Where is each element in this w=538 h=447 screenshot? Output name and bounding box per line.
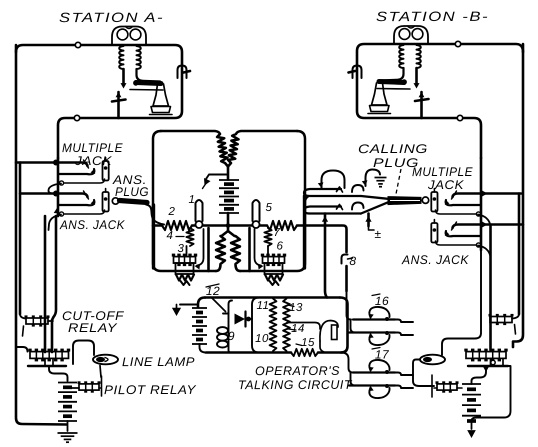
right outer vertical from station B (513, 44, 523, 347)
multiple jack B springs and sleeve (453, 194, 482, 198)
key feed verticals (347, 291, 352, 320)
sleeve wire verticals to cut-off relay (44, 216, 47, 352)
svg-text:±: ± (374, 227, 381, 241)
svg-text:PLUG: PLUG (115, 185, 149, 199)
svg-text:6: 6 (277, 240, 284, 252)
right inner vertical wire (518, 194, 521, 315)
operator circuit top wire (205, 296, 340, 299)
resistance 15 (291, 349, 318, 356)
condenser bracket on station A right wire (178, 66, 187, 79)
line lamp to pilot connector (100, 366, 101, 378)
svg-text:JACK: JACK (74, 154, 112, 168)
induction coil windings station B (399, 45, 403, 68)
supervisory ring 5 (253, 200, 260, 221)
svg-text:MULTIPLE: MULTIPLE (412, 165, 473, 179)
svg-text:14: 14 (291, 323, 305, 335)
calling plug tip (422, 197, 428, 203)
svg-text:2: 2 (168, 206, 176, 218)
svg-text:5: 5 (266, 202, 273, 214)
station A line loop box (16, 45, 182, 158)
retardation loop on tip side (322, 171, 345, 189)
svg-text:RELAY: RELAY (68, 321, 118, 335)
battery left (58, 382, 77, 384)
pilot relay (79, 384, 99, 390)
svg-text:TALKING CIRCUIT: TALKING CIRCUIT (238, 378, 353, 392)
svg-text:JACK: JACK (427, 178, 464, 192)
svg-text:13: 13 (289, 302, 303, 314)
winding 4 (186, 228, 193, 246)
right cord loop with repeating coil windings (228, 131, 297, 167)
small sleeve coil left (26, 318, 48, 324)
vertical lead left loop (207, 228, 210, 271)
svg-text:16: 16 (375, 294, 389, 308)
feed stub to answering jack A (20, 192, 55, 195)
right lamp to pilot wire (413, 360, 434, 387)
right battery (462, 383, 481, 385)
relay 3 armature (197, 229, 204, 266)
right pilot relay (437, 384, 457, 390)
transmitter station A (153, 84, 169, 106)
svg-text:7: 7 (274, 227, 281, 239)
svg-text:STATION -B-: STATION -B- (376, 9, 489, 24)
right relay vertical leads (442, 250, 481, 355)
svg-text:OPERATOR'S: OPERATOR'S (255, 364, 340, 378)
svg-text:MULTIPLE: MULTIPLE (62, 141, 123, 155)
ringer bells station B (399, 29, 410, 40)
vertical to operator circuit (325, 214, 327, 298)
svg-text:8: 8 (349, 254, 356, 268)
second left vertical wire (19, 163, 22, 315)
receiver in operator circuit (287, 323, 320, 330)
svg-text:ANS. JACK: ANS. JACK (59, 218, 125, 232)
answering plug cord to cord circuit (146, 205, 164, 225)
line lamp (93, 355, 118, 365)
answering jack A springs and sleeve (59, 194, 88, 198)
svg-text:CALLING: CALLING (358, 142, 428, 156)
relay 6 (263, 257, 285, 264)
supervisory ring 1 (196, 200, 203, 221)
ringer bells station A (117, 29, 128, 40)
ringer housing station B (394, 26, 428, 44)
junction dot answering jack A (53, 191, 59, 197)
cut-off relay coil (30, 352, 69, 359)
operator induction coil primary 10 11 (252, 298, 276, 353)
svg-text:9: 9 (228, 329, 235, 343)
resistance 7 (267, 221, 297, 230)
right relay to battery lead (472, 366, 487, 384)
left cord loop with repeating coil windings (161, 131, 228, 167)
right cut-off relay (466, 352, 506, 359)
receiver on hook station A (137, 69, 161, 82)
right line lamp (420, 355, 445, 365)
svg-text:PILOT RELAY: PILOT RELAY (104, 383, 197, 397)
svg-text:10: 10 (255, 333, 269, 345)
hookswitch contact cross station B (420, 92, 423, 118)
conductor from cord to keys (305, 226, 347, 253)
right bottom return wire (472, 366, 511, 421)
right battery ground arrow (471, 421, 473, 429)
answering plug (112, 198, 118, 204)
ringer housing station A (112, 27, 146, 46)
svg-text:15: 15 (301, 337, 315, 349)
battery tap with polarity (367, 214, 370, 227)
cut-off relay leads (16, 347, 28, 352)
operator battery (192, 307, 207, 309)
transmitter station B (372, 83, 388, 105)
right sleeve vertical to relay (489, 226, 492, 350)
condenser contact (235, 314, 246, 325)
junction on station A bottom wire (74, 115, 79, 120)
cut-off relay armature to line lamp (73, 341, 94, 365)
svg-text:ANS. JACK: ANS. JACK (401, 253, 469, 267)
operator circuit right edge (340, 298, 348, 353)
svg-text:3: 3 (178, 243, 185, 255)
feed stubs right jacks (481, 192, 521, 195)
cut-off relay to battery wire (49, 366, 68, 381)
right pilot armature bar (431, 375, 433, 397)
operator circuit bottom wire (206, 351, 291, 354)
cut-off relay bottom bar (28, 365, 66, 367)
ground left battery (58, 432, 78, 434)
tip curl between jacks A (48, 184, 61, 194)
battery feed center tap wires (227, 166, 230, 180)
svg-text:1: 1 (189, 194, 196, 206)
ground at calling plug loop (375, 177, 387, 179)
ring spring tray (304, 207, 361, 214)
junction on station B bottom wire (457, 115, 462, 120)
tip spring curl piece (352, 185, 364, 192)
tip curl below answering jack A (49, 215, 62, 231)
cord circuit battery (219, 179, 239, 181)
right cut-off relay bottom bar (468, 365, 508, 367)
multiple jack A springs and sleeve (59, 163, 88, 167)
junction on station B top wire (455, 41, 460, 46)
right small coil lead to relay (490, 323, 492, 351)
answering jack B springs and sleeve (453, 225, 482, 229)
ring spring curl piece (352, 203, 364, 210)
sleeve coil right (490, 317, 512, 323)
resistance 2 (162, 221, 192, 230)
svg-text:LINE LAMP: LINE LAMP (122, 355, 195, 369)
ground arrow operator battery (180, 304, 198, 306)
hookswitch lever station A (122, 69, 125, 84)
junction on station A top wire (75, 42, 80, 47)
battery arrow (206, 175, 228, 180)
hookswitch lever station B (415, 68, 418, 84)
condenser bracket on station B left wire (353, 66, 362, 79)
relay 6 armature (255, 229, 262, 266)
relay 3 (174, 257, 196, 264)
svg-text:11: 11 (257, 300, 270, 312)
receiver on hook station B (380, 68, 404, 81)
induction coil 9 (228, 314, 230, 327)
svg-text:STATION A-: STATION A- (59, 10, 164, 25)
induction coil windings station A (119, 46, 123, 69)
curl right loop to contact (305, 196, 310, 206)
calling plug body (388, 197, 421, 205)
tap to induction coil (246, 317, 251, 322)
tip-ring conductor across cord circuit (153, 224, 162, 227)
right tip curls to relay vertical (478, 215, 491, 227)
dashed leader calling plug (396, 169, 401, 194)
operator induction coil secondary 13 14 (283, 299, 290, 352)
station B line loop box (357, 44, 523, 158)
svg-text:4: 4 (167, 230, 174, 242)
condenser 8 (342, 255, 348, 264)
feed stub to multiple jack A (16, 161, 55, 164)
right jack vertical (480, 158, 483, 250)
tip spring tray (304, 189, 361, 196)
contact tick (23, 326, 24, 336)
junction dot multiple jack A (53, 160, 59, 166)
wire jack A vertical (57, 158, 60, 216)
winding 7 zigzag (264, 228, 271, 246)
calling plug cord conductors (361, 196, 388, 199)
hookswitch contact cross station A (117, 92, 120, 118)
left outer vertical wire (16, 45, 67, 425)
center junction dot (226, 223, 231, 228)
retardation loop with ground (366, 170, 381, 187)
